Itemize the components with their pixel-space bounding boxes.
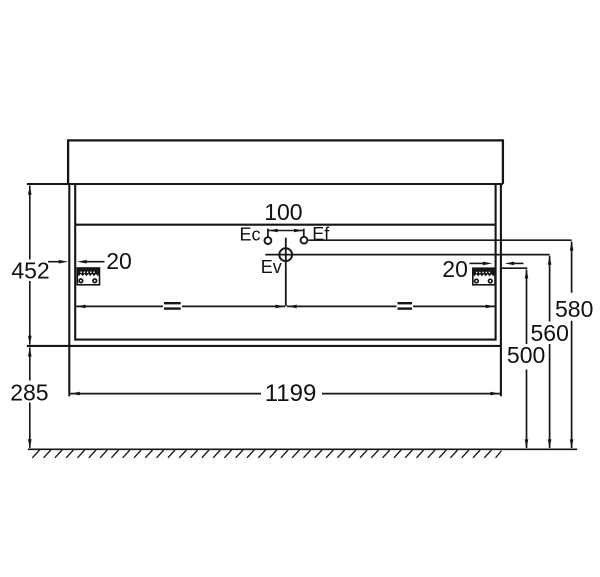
- left drawer-slide bracket: [77, 268, 99, 285]
- dimension 452 vertical line with arrows: [28, 185, 32, 345]
- ground hatching: [32, 450, 501, 458]
- worktop bottom edge / cabinet top line with left extension: [27, 183, 503, 185]
- cabinet bottom outer line with left extension: [27, 345, 501, 347]
- label 285: [10, 379, 48, 405]
- cabinet interior top rail line: [75, 224, 495, 226]
- hole Ec circle: [265, 237, 272, 244]
- cabinet bottom panel inner line: [75, 339, 495, 341]
- dimension 20 left arrows: [48, 260, 105, 264]
- cabinet left side panel inner line: [74, 184, 76, 341]
- cabinet right side panel inner line: [495, 184, 497, 341]
- right drawer-slide bracket: [473, 268, 495, 285]
- hole Ev circle with crosshair: [279, 238, 292, 307]
- dimension 285 vertical line with arrows: [28, 347, 32, 449]
- svg-text:1199: 1199: [265, 380, 317, 407]
- svg-text:560: 560: [531, 320, 569, 346]
- bracket top line extending right to 500 dimension: [501, 267, 527, 269]
- cabinet left side panel (outer line incl. extension down to 1199 dim): [68, 184, 70, 396]
- svg-text:Ev: Ev: [261, 257, 282, 277]
- label 580: [555, 296, 593, 322]
- svg-text:452: 452: [11, 257, 49, 283]
- Ef horizontal line extending right to 580 dimension: [308, 239, 571, 241]
- dimension 100 arrow line: [268, 229, 303, 233]
- Ev horizontal centerline extending right to 560 dimension: [265, 254, 549, 256]
- label 20 right: [442, 256, 468, 282]
- ground line: [28, 448, 577, 450]
- dimension 1199 horizontal line with arrows: [70, 392, 500, 396]
- dimension 560 vertical line with arrows: [548, 255, 552, 448]
- label 20 left: [106, 248, 132, 274]
- dimension 580 vertical line with arrows: [570, 241, 574, 449]
- svg-text:20: 20: [106, 248, 132, 274]
- label 1199: [265, 380, 317, 407]
- worktop (countertop rectangle): [68, 140, 503, 184]
- svg-text:285: 285: [10, 379, 48, 405]
- label Ec: [239, 225, 260, 245]
- svg-text:Ef: Ef: [312, 224, 330, 244]
- svg-text:Ec: Ec: [239, 225, 260, 245]
- svg-text:20: 20: [442, 256, 468, 282]
- label 452: [11, 257, 49, 283]
- label 560: [531, 320, 569, 346]
- label Ef: [312, 224, 330, 244]
- equal-spacing dimension left segment: [76, 303, 285, 308]
- svg-text:580: 580: [555, 296, 593, 322]
- label Ev: [261, 257, 282, 277]
- hole Ef circle: [301, 237, 308, 244]
- dimension 100 ticks: [268, 229, 304, 237]
- equal-spacing dimension right segment: [287, 303, 495, 308]
- label 100: [264, 199, 302, 225]
- label 500: [507, 342, 545, 368]
- dimension 500 vertical line with arrows: [525, 269, 529, 449]
- dimension 20 right arrows: [470, 262, 524, 266]
- svg-text:100: 100: [264, 199, 302, 225]
- cabinet right side panel (outer line incl. extension down to 1199 dim): [500, 184, 502, 396]
